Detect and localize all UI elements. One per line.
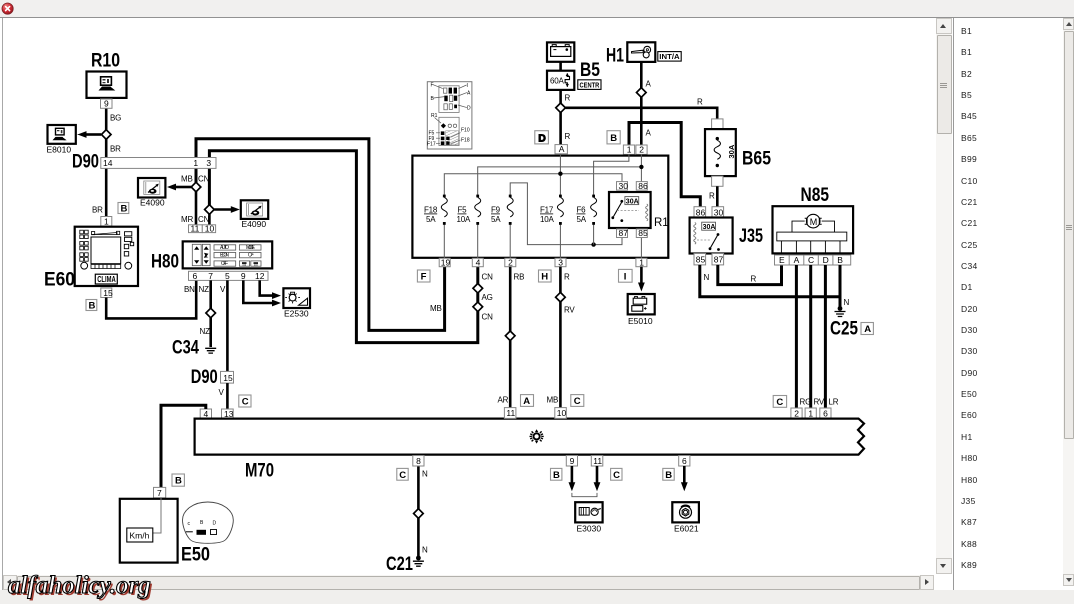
svg-text:N85: N85 [801, 185, 830, 206]
svg-text:MB: MB [547, 396, 559, 405]
svg-text:85: 85 [638, 228, 648, 238]
svg-text:5: 5 [225, 271, 230, 281]
component B5 (battery) [547, 42, 600, 81]
wire fusebox pin3 to M70 pin10 (R/RV/MB) [547, 267, 576, 408]
svg-text:MB: MB [430, 304, 442, 313]
boxed label A near C25 [861, 323, 873, 336]
svg-text:E8010: E8010 [47, 145, 72, 155]
svg-text:E2530: E2530 [284, 309, 309, 319]
M70 pin 6 bottom with arrow [679, 456, 690, 492]
svg-text:R: R [565, 132, 571, 141]
big label D90 (upper) [72, 152, 99, 173]
component E4090 (left) [138, 178, 165, 208]
svg-text:F5: F5 [458, 206, 468, 215]
internal bus from pin 2 [478, 154, 644, 196]
svg-text:30A: 30A [626, 198, 639, 205]
wire fusebox pin2 to M70 pin11 (RB/AR) [498, 267, 525, 408]
svg-text:3: 3 [206, 158, 211, 168]
svg-text:E6021: E6021 [674, 524, 699, 534]
svg-text:86: 86 [696, 207, 706, 217]
svg-text:B65: B65 [742, 149, 771, 170]
svg-text:7: 7 [208, 271, 213, 281]
svg-text:B5: B5 [580, 60, 600, 81]
boxed label C near M70 right pins [773, 396, 786, 409]
wire E60 pin15 to H80 pin6 (BN) [106, 280, 196, 318]
svg-text:86: 86 [638, 181, 648, 191]
ground C34 [172, 338, 216, 359]
bottom gray strip [0, 590, 1074, 604]
relay R1 pin boxes 30 86 87 85 [617, 181, 649, 238]
wire M70 pin4 to E50 pin7 [161, 405, 206, 487]
M70 right pins 2 1 6 [791, 408, 831, 419]
svg-text:9: 9 [104, 99, 109, 109]
node diamond fusebox pin4 upper [473, 284, 483, 294]
svg-text:87: 87 [619, 228, 629, 238]
component E5010 [628, 294, 655, 326]
svg-text:LR: LR [829, 398, 839, 407]
horizontal scrollbar [3, 575, 934, 590]
internal link pin1 to F6 [594, 154, 629, 196]
boxed label B [607, 131, 620, 144]
svg-text:NZ: NZ [199, 285, 210, 294]
M70 pin 8 bottom [413, 456, 424, 467]
svg-text:R10: R10 [91, 51, 120, 72]
svg-text:J35: J35 [739, 226, 763, 247]
svg-text:BN: BN [184, 285, 195, 294]
fuse box (central junction unit) [412, 156, 668, 258]
fuse F18 5A [424, 195, 447, 225]
boxed label CENTR [578, 80, 601, 90]
svg-text:85: 85 [696, 255, 706, 265]
fusebox bottom pins 19 4 2 3 1 [439, 258, 647, 268]
svg-text:B: B [837, 255, 843, 265]
svg-text:3: 3 [558, 258, 563, 268]
svg-text:C: C [242, 397, 249, 408]
svg-text:D: D [538, 132, 546, 144]
bracket joining arrows to E3030 [572, 493, 597, 497]
wire B5 to fusebox pin A (R) [561, 90, 571, 145]
svg-text:D: D [467, 106, 471, 112]
svg-text:A: A [864, 324, 871, 335]
svg-text:A: A [559, 144, 565, 154]
boxed label B near M70 pin6 [663, 468, 674, 480]
wire fusebox pin1 to J35 pin86 [629, 123, 700, 207]
node diamond fusebox pin4 lower [473, 302, 483, 312]
svg-text:F18: F18 [461, 138, 470, 144]
component E8010 [47, 125, 76, 155]
svg-text:MODE: MODE [246, 245, 256, 251]
schematic svg [3, 18, 935, 574]
fuse F9 5A [491, 195, 513, 225]
boxed label INT/A [658, 52, 681, 62]
node diamond H80 pin7 [206, 308, 216, 318]
pin 13 of M70 [222, 409, 234, 419]
svg-text:4: 4 [204, 409, 209, 419]
svg-text:NZ: NZ [200, 327, 211, 336]
wire D90 pin15 to M70 pin13 (V) [219, 383, 228, 409]
svg-text:F10: F10 [461, 128, 470, 134]
big label D90 (lower) [191, 367, 218, 388]
arrow to E4090 (right) [214, 206, 240, 213]
svg-text:V: V [219, 388, 225, 397]
svg-text:5A: 5A [577, 215, 587, 224]
svg-text:9: 9 [570, 456, 575, 466]
component E4090 (right) [241, 200, 268, 229]
svg-text:1: 1 [104, 216, 109, 226]
svg-text:AR: AR [498, 396, 509, 405]
wire fusebox pin1 arrow to E5010 [638, 267, 645, 292]
svg-text:AUTO: AUTO [220, 245, 229, 251]
boxed label H [539, 270, 552, 283]
svg-text:11: 11 [506, 408, 515, 418]
M70 pin 9 bottom with arrow [566, 456, 577, 492]
wire N85 pinB to ground C25 (N) [840, 265, 850, 308]
node diamond D90 pin3 [205, 205, 215, 215]
ground C25 [830, 306, 858, 339]
svg-text:F9: F9 [491, 206, 501, 215]
svg-text:CENTR: CENTR [580, 80, 600, 89]
wire D90 pin3 to H80 pin10 (CN/MR) [181, 214, 210, 225]
boxed label B near E50 [172, 474, 184, 487]
svg-text:R1: R1 [431, 113, 438, 119]
component E2530 (illumination lamp) [283, 288, 310, 318]
pin 15 of E60 [101, 288, 113, 298]
svg-text:C: C [776, 397, 783, 408]
svg-text:6: 6 [193, 271, 198, 281]
svg-text:B: B [89, 300, 96, 311]
node diamond H1 [637, 88, 647, 98]
svg-text:F6: F6 [577, 206, 587, 215]
svg-text:O↗: O↗ [248, 253, 254, 259]
H80 top pin strip 11 10 [189, 224, 216, 234]
svg-text:C: C [613, 470, 620, 481]
svg-text:ECON: ECON [220, 253, 229, 259]
wire N85 pinD to M70 pin6 (LR) [825, 265, 838, 408]
svg-text:C21: C21 [386, 554, 413, 574]
svg-text:2: 2 [639, 145, 644, 155]
pin 9 of R10 [101, 99, 113, 109]
arrow to E4090 (left) [167, 184, 191, 191]
svg-text:F17: F17 [540, 206, 554, 215]
pin 7 of E50 [154, 487, 166, 498]
boxed label C near M70 pin10 [571, 395, 584, 407]
svg-text:V: V [220, 285, 226, 294]
svg-text:N: N [844, 298, 850, 307]
svg-text:B: B [175, 476, 182, 487]
boxed label F [417, 270, 430, 283]
fuse F5 10A [457, 195, 481, 225]
fuse F6 5A [577, 195, 597, 225]
svg-text:1: 1 [808, 409, 813, 419]
svg-text:R: R [565, 94, 571, 103]
ground C21 [386, 554, 424, 575]
svg-text:N: N [704, 273, 710, 282]
fuse 60A of B5 [547, 71, 574, 90]
svg-text:30A: 30A [703, 224, 716, 231]
svg-text:E5010: E5010 [628, 316, 653, 326]
component E3030 [575, 502, 602, 533]
svg-text:INT/A: INT/A [659, 52, 680, 61]
component H1 (ignition key) [606, 42, 655, 66]
svg-text:B: B [553, 470, 560, 481]
svg-text:11: 11 [593, 456, 602, 466]
svg-text:CN: CN [482, 313, 494, 322]
svg-text:60A: 60A [550, 77, 564, 86]
component B65 (fuse 30A) [705, 119, 771, 186]
J35 pin boxes 86 30 [694, 207, 724, 218]
instrument cluster outline near E50 [183, 502, 234, 543]
svg-text:D: D [213, 521, 217, 527]
node diamond on R10 wire [101, 130, 111, 140]
H80 bus wire A (pin11 loop to fuse box pin19) [196, 139, 445, 331]
svg-text:RB: RB [514, 273, 525, 282]
pin 1 of E60 [101, 216, 112, 226]
boxed label I [619, 269, 633, 282]
svg-text:1: 1 [639, 258, 644, 268]
svg-text:13: 13 [224, 409, 234, 419]
wire J35 pin87 to N85 pinE (R) [718, 265, 782, 285]
wire M70 pin8 to ground C21 (N) [418, 466, 428, 558]
svg-text:30: 30 [714, 207, 724, 217]
svg-text:5A: 5A [426, 215, 436, 224]
svg-text:MB: MB [181, 175, 193, 184]
svg-text:11: 11 [191, 224, 200, 234]
node diamond M70 pin8 wire [414, 509, 424, 519]
boxed label A near M70 pin11 [521, 395, 534, 407]
H80 bottom pin strip 6 7 5 9 12 [189, 271, 269, 281]
wire H80 pin9 arrow to E2530 [243, 280, 281, 306]
svg-text:87: 87 [714, 255, 724, 265]
boxed label C near D90 lower [239, 395, 251, 408]
svg-text:M70: M70 [245, 461, 274, 482]
svg-text:N: N [422, 470, 428, 479]
boxed label B near E60 pin1 [118, 203, 129, 215]
svg-text:B: B [610, 133, 617, 144]
M70 pin 11 bottom with arrow [591, 456, 603, 492]
wire H80 pin5 to D90 pin15 (V) [220, 280, 227, 371]
internal fuse drops [444, 223, 641, 258]
svg-text:A: A [646, 129, 652, 138]
svg-text:15: 15 [103, 288, 113, 298]
fusebox top pins 1 2 [623, 145, 647, 155]
svg-text:30: 30 [619, 181, 629, 191]
svg-text:10: 10 [557, 408, 567, 418]
svg-text:H: H [541, 272, 548, 283]
svg-text:RV: RV [564, 306, 575, 315]
svg-text:F18: F18 [424, 206, 438, 215]
svg-text:B: B [665, 470, 672, 481]
svg-text:OFF: OFF [221, 261, 228, 267]
svg-text:E3030: E3030 [577, 524, 602, 534]
fuse F17 10A [540, 195, 563, 225]
svg-text:2: 2 [794, 409, 799, 419]
svg-text:4: 4 [476, 258, 481, 268]
component R10 [87, 51, 127, 98]
boxed label C near M70 pin11 bottom [611, 468, 622, 480]
svg-text:R: R [709, 192, 715, 201]
svg-text:D90: D90 [191, 367, 218, 388]
H80 bus wire B (pin10 loop to fuse box pin4) [209, 151, 493, 343]
D90 connector strip [101, 158, 216, 169]
red close button [1, 2, 14, 15]
svg-text:C: C [399, 470, 406, 481]
svg-text:A: A [794, 255, 800, 265]
canvas vertical scrollbar [936, 18, 952, 574]
svg-text:2: 2 [508, 258, 513, 268]
svg-text:R: R [697, 98, 703, 107]
svg-text:I: I [467, 83, 468, 89]
component N85 (blower motor) [773, 185, 854, 254]
svg-text:7: 7 [157, 488, 162, 498]
node diamond pin3 wire [556, 292, 566, 302]
svg-text:RV: RV [814, 398, 825, 407]
svg-text:M: M [810, 217, 818, 227]
internal link F9 to relay 87 [510, 183, 622, 247]
boxed label C near M70 pin8 [397, 468, 408, 480]
component E50 (speedometer) [120, 498, 210, 566]
svg-text:14: 14 [103, 158, 113, 168]
svg-text:E4090: E4090 [242, 219, 267, 229]
pin 4 of M70 [200, 409, 211, 419]
svg-text:A: A [646, 80, 652, 89]
wire B65 to J35 pin30 (R) [709, 186, 717, 206]
svg-text:H80: H80 [151, 252, 179, 273]
svg-text:9: 9 [241, 271, 246, 281]
svg-text:10: 10 [205, 224, 215, 234]
svg-text:H1: H1 [606, 46, 624, 67]
svg-text:E: E [779, 255, 785, 265]
svg-text:C34: C34 [172, 338, 199, 359]
svg-text:D90: D90 [72, 152, 99, 173]
main feed wire to B65 [565, 98, 717, 119]
boxed label B below E60 [86, 300, 97, 312]
pin 15 D90 lower [221, 371, 234, 383]
svg-text:N: N [422, 546, 428, 555]
node diamond pin2 wire [505, 331, 515, 341]
M70 pin 11 top [504, 408, 516, 419]
svg-text:8: 8 [416, 456, 421, 466]
svg-text:10A: 10A [457, 215, 471, 224]
component E6021 [672, 502, 699, 533]
svg-text:BR: BR [92, 206, 103, 215]
svg-text:6: 6 [682, 456, 687, 466]
svg-text:30A: 30A [727, 144, 736, 158]
wire H1 to fusebox pin2 (A) [641, 62, 651, 145]
svg-text:5A: 5A [491, 215, 501, 224]
fusebox top pin A [555, 144, 567, 154]
J35 pin boxes 85 87 [694, 254, 724, 265]
svg-text:10A: 10A [540, 215, 554, 224]
inset fuse location diagram [427, 82, 472, 149]
svg-text:C: C [574, 396, 581, 407]
svg-text:B: B [121, 203, 128, 214]
svg-text:R: R [751, 275, 757, 284]
svg-text:C25: C25 [830, 319, 858, 340]
wire N85 pinC to M70 pin1 (RV) [811, 265, 825, 408]
wire D90 pin1 to H80 pin11 (MB/CN) [181, 175, 210, 225]
svg-text:R: R [564, 273, 570, 282]
svg-text:E50: E50 [181, 545, 210, 566]
component list panel [954, 18, 1063, 586]
svg-text:F: F [431, 83, 434, 89]
svg-text:E60: E60 [44, 270, 75, 291]
svg-text:R1: R1 [654, 217, 669, 229]
wire J35 pin85 to ground joint (N) [700, 265, 840, 297]
white canvas [3, 18, 935, 574]
svg-text:D: D [823, 255, 829, 265]
svg-text:F17: F17 [427, 142, 436, 148]
wire battery to fuse 60A [559, 62, 562, 71]
svg-text:15: 15 [223, 373, 233, 383]
svg-text:1: 1 [627, 145, 632, 155]
component H80 (climate control panel) [151, 241, 272, 272]
watermark [8, 572, 151, 600]
boxed label D [535, 131, 549, 145]
title bar [0, 0, 1074, 18]
snowflake symbol in M70 [530, 429, 544, 443]
svg-text:C: C [808, 255, 814, 265]
M70 wiring harness bar [195, 419, 864, 482]
svg-text:CLIMA: CLIMA [97, 275, 116, 284]
svg-text:CN: CN [482, 273, 494, 282]
svg-text:19: 19 [441, 258, 451, 268]
svg-text:BR: BR [110, 145, 121, 154]
svg-text:AG: AG [482, 293, 493, 302]
node diamond D90 pin1 [191, 182, 201, 192]
M70 pin 10 top [555, 408, 567, 419]
wire N85 pinA to M70 pin2 (RG) [796, 265, 811, 408]
svg-text:12: 12 [255, 271, 265, 281]
svg-text:A: A [523, 396, 530, 407]
svg-text:6: 6 [823, 409, 828, 419]
svg-text:E4090: E4090 [140, 198, 165, 208]
svg-text:1: 1 [193, 158, 198, 168]
internal bus from pin A [444, 154, 622, 196]
wire R10 pin9 to E60 pin1 (BG/BR) [92, 108, 121, 216]
node diamond B5 [556, 103, 566, 113]
N85 pin strip E A C D B [775, 255, 851, 265]
panel separator [953, 18, 954, 590]
svg-text:F: F [421, 272, 427, 283]
svg-text:Km/h: Km/h [130, 531, 150, 541]
relay J35 [690, 218, 764, 254]
svg-text:CN: CN [198, 175, 210, 184]
boxed label B near M70 pin9 [551, 468, 562, 480]
svg-text:I: I [624, 272, 627, 283]
wire H80 pin12 arrow to E2530 [260, 280, 281, 299]
panel scrollbar [1063, 18, 1074, 586]
component E60 (CLIMA unit) [44, 227, 138, 291]
wire H80 pin7 to ground C34 (NZ) [199, 280, 211, 347]
relay R1 [609, 192, 669, 229]
svg-text:BG: BG [110, 114, 121, 123]
arrow to E8010 [78, 131, 102, 138]
